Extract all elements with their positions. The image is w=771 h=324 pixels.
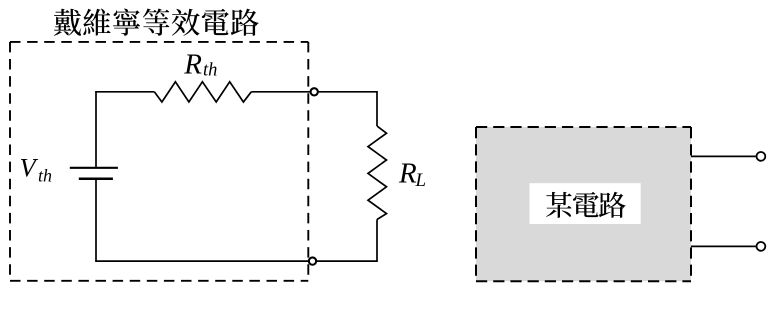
wire: bottom lead from unknown circuit: [691, 245, 756, 247]
svg-text:th: th: [203, 61, 217, 81]
white label box inside gray box: [530, 183, 641, 224]
svg-text:R: R: [398, 158, 417, 190]
wire: top horizontal from corner to resistor Rth: [95, 91, 154, 93]
terminal node: bottom right: [757, 242, 766, 251]
wire: from R_L bottom to bottom terminal: [317, 220, 377, 262]
wire: top horizontal from Rth to top terminal: [251, 91, 310, 93]
svg-text:L: L: [415, 170, 427, 191]
terminal node: top output of Thevenin circuit: [311, 88, 318, 95]
terminal node: top right: [757, 152, 766, 161]
dashed box: Thevenin equivalent circuit boundary: [10, 42, 308, 281]
terminal node: bottom output of Thevenin circuit: [309, 257, 316, 264]
wire: bottom vertical from battery - down to bottom wire: [95, 180, 97, 261]
title label 戴維寧等效電路 (Thevenin equivalent circuit): [54, 8, 259, 35]
resistor R_L zigzag (load): [368, 126, 387, 220]
svg-text:R: R: [183, 48, 202, 80]
resistor R_th zigzag: [154, 82, 251, 102]
battery voltage source Vth: short plate: [79, 177, 113, 180]
wire: from top terminal to R_L top: [319, 92, 377, 126]
wire: top lead from unknown circuit: [691, 155, 756, 157]
gray dashed box: unknown circuit 某電路: [476, 127, 691, 281]
battery voltage source Vth: long plate: [70, 167, 118, 169]
label 某電路 (some circuit): [546, 192, 626, 218]
wire: bottom horizontal from corner to bottom terminal: [95, 260, 308, 262]
wire: top-left vertical from top wire down to battery +: [95, 92, 97, 167]
svg-text:V: V: [20, 152, 39, 182]
svg-text:th: th: [38, 165, 52, 185]
